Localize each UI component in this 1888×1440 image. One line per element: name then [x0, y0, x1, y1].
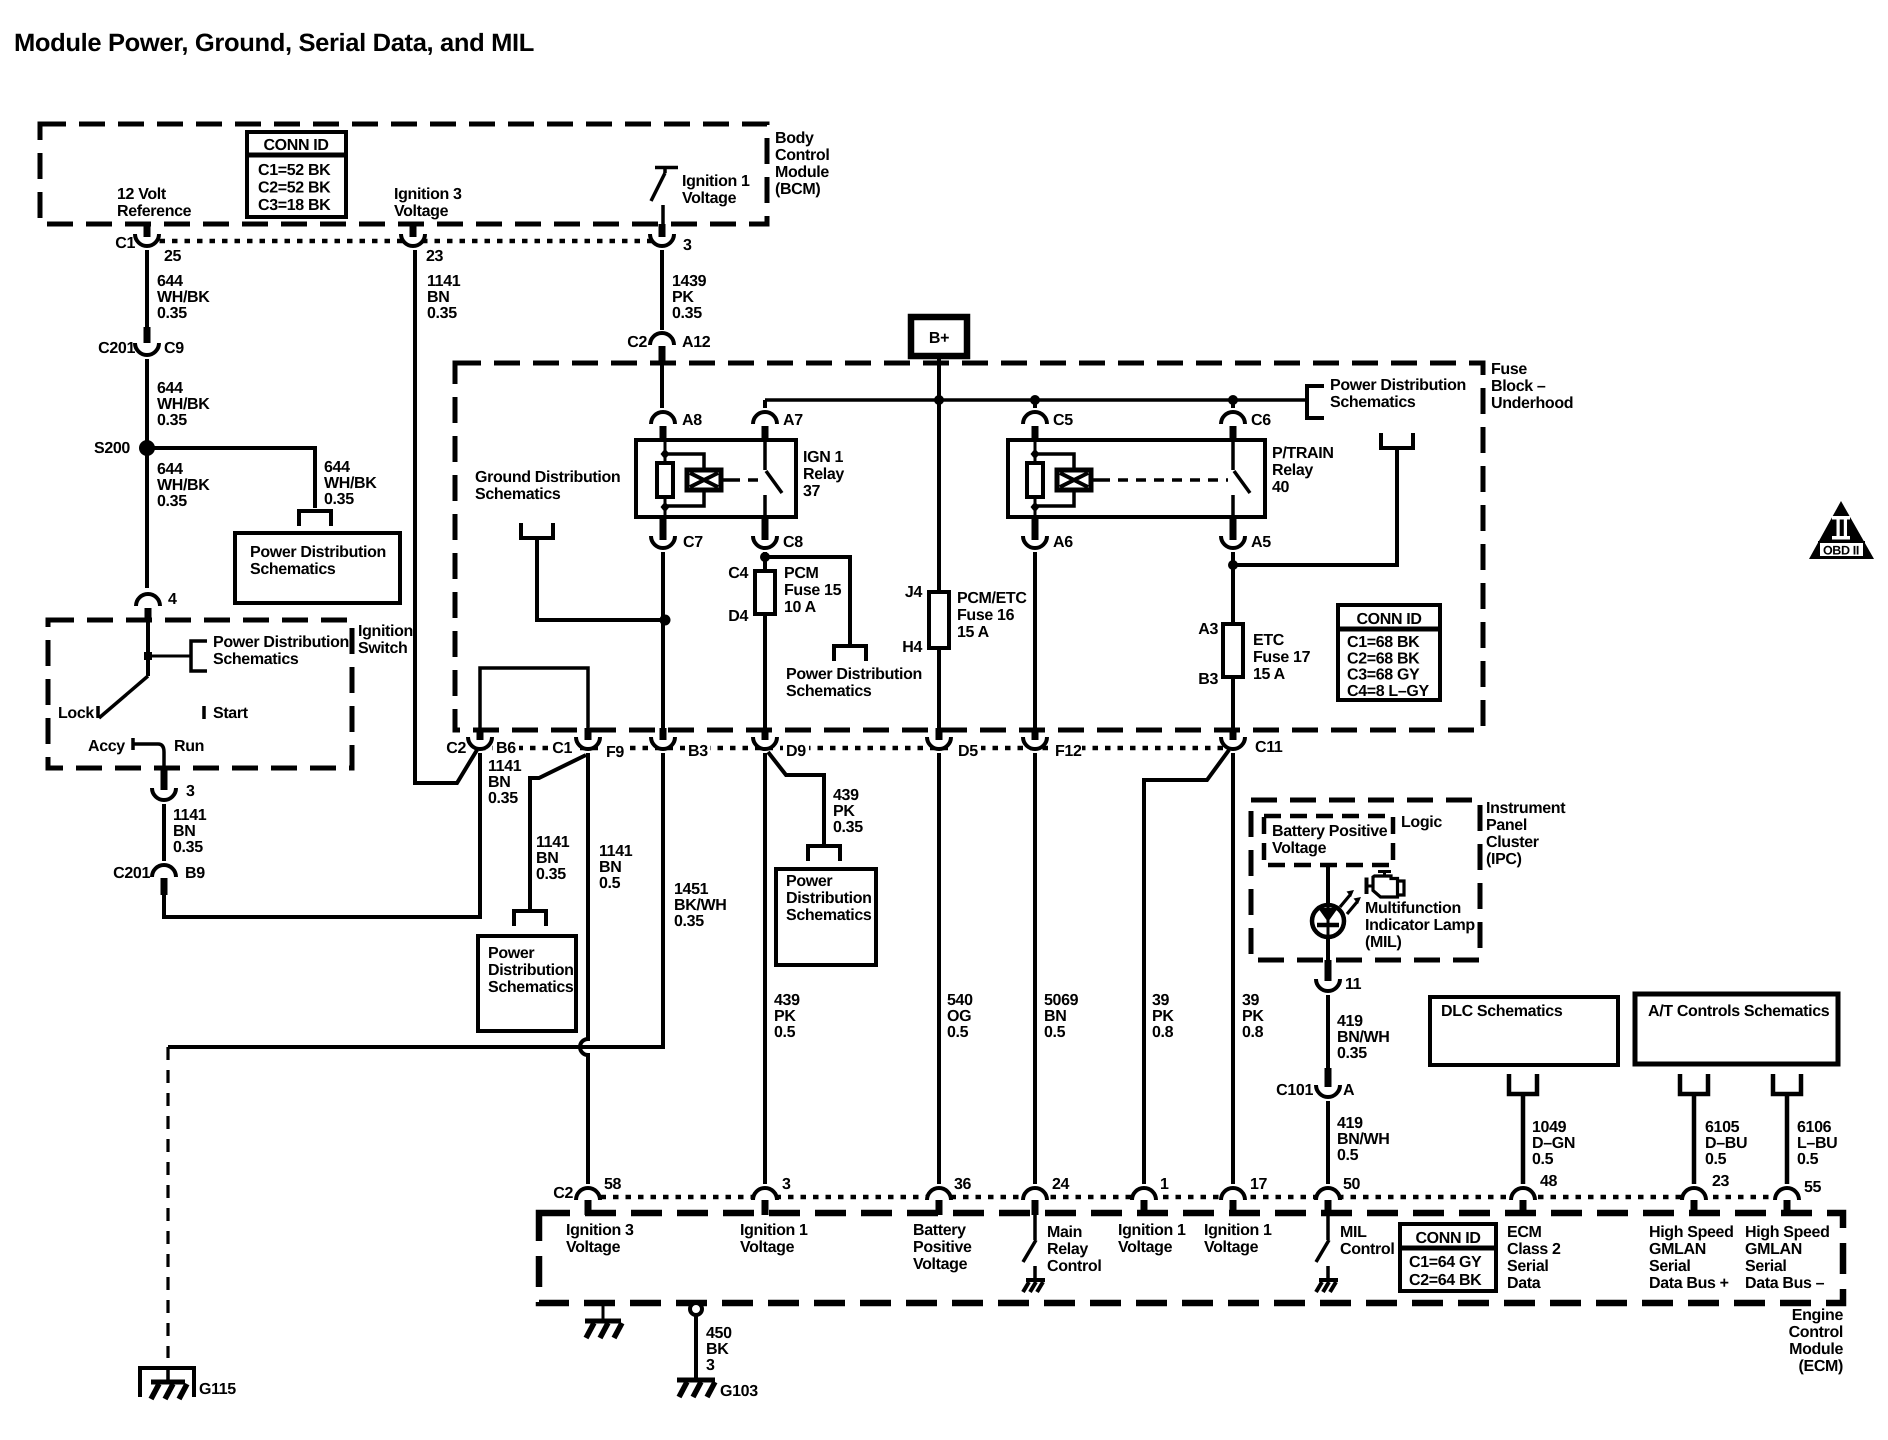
svg-text:0.5: 0.5 [599, 875, 621, 892]
svg-text:Voltage: Voltage [1118, 1239, 1173, 1256]
svg-text:G115: G115 [199, 1381, 236, 1398]
svg-text:OBD II: OBD II [1823, 544, 1859, 558]
svg-text:WH/BK: WH/BK [157, 477, 210, 494]
fuse block CONN ID table [1338, 605, 1440, 700]
svg-text:C4=8 L–GY: C4=8 L–GY [1347, 683, 1429, 700]
connector C5 (fuse block) [1023, 412, 1047, 424]
svg-text:Data Bus –: Data Bus – [1745, 1275, 1825, 1292]
connector C2 pin A12 [650, 333, 674, 345]
svg-text:Control: Control [1047, 1258, 1101, 1275]
switch Main Relay Control (ECM internal) [1033, 1215, 1037, 1240]
svg-text:P/TRAIN: P/TRAIN [1272, 445, 1334, 462]
svg-text:L–BU: L–BU [1797, 1135, 1837, 1152]
icon check engine [1378, 872, 1391, 877]
wire 644 WH/BK branch (S200 to Power Distribution) [147, 448, 315, 508]
svg-text:C101: C101 [1276, 1082, 1313, 1099]
junction C8 branch [760, 552, 770, 562]
svg-text:C2=68 BK: C2=68 BK [1347, 650, 1420, 667]
svg-text:Voltage: Voltage [682, 190, 737, 207]
svg-text:Control: Control [1340, 1241, 1394, 1258]
wire bus to C6 [1231, 400, 1235, 408]
connector C1 pin 25 (BCM) [135, 234, 159, 246]
svg-text:C2=64 BK: C2=64 BK [1409, 1272, 1482, 1289]
wire MIL lamp to pin 11 [1326, 937, 1330, 960]
svg-text:0.5: 0.5 [774, 1024, 796, 1041]
svg-text:55: 55 [1804, 1179, 1822, 1196]
svg-text:C8: C8 [783, 534, 803, 551]
svg-text:50: 50 [1343, 1176, 1361, 1193]
svg-text:1439: 1439 [672, 273, 707, 290]
off-page bracket (ignition switch PDS) [191, 641, 207, 671]
svg-text:644: 644 [324, 459, 350, 476]
lamp MIL LED [1312, 905, 1344, 937]
svg-text:1049: 1049 [1532, 1119, 1567, 1136]
svg-text:C4: C4 [728, 565, 748, 582]
connector pin 3 (ignition switch) [152, 788, 176, 800]
svg-text:PCM/ETC: PCM/ETC [957, 590, 1027, 607]
svg-text:Power: Power [488, 945, 534, 962]
svg-text:644: 644 [157, 461, 183, 478]
connector C101 pin A [1316, 1085, 1340, 1097]
svg-text:Relay: Relay [1272, 462, 1313, 479]
svg-text:3: 3 [706, 1357, 715, 1374]
svg-text:WH/BK: WH/BK [324, 475, 377, 492]
svg-text:PK: PK [1152, 1008, 1174, 1025]
switch blade (ignition switch) [99, 676, 148, 718]
svg-text:23: 23 [426, 248, 444, 265]
svg-text:Ignition 1: Ignition 1 [1204, 1222, 1272, 1239]
lamp MIL arrows [1340, 895, 1357, 914]
svg-text:419: 419 [1337, 1115, 1363, 1132]
svg-text:Fuse 17: Fuse 17 [1253, 649, 1311, 666]
svg-text:C201: C201 [113, 865, 150, 882]
svg-text:Engine: Engine [1792, 1307, 1844, 1324]
wire 419 BN/WH (11 to C101) [1326, 995, 1330, 1068]
svg-text:Ignition 3: Ignition 3 [394, 186, 462, 203]
wire B+ to PCM/ETC fuse [937, 400, 941, 592]
connector pin 48 (ECM) [1511, 1188, 1535, 1200]
svg-text:A6: A6 [1053, 534, 1073, 551]
connector C201 pin B9 [152, 865, 176, 877]
svg-text:Start: Start [213, 705, 249, 722]
off-page bracket (A5 branch) [1381, 433, 1413, 448]
svg-text:Power: Power [786, 873, 832, 890]
svg-text:Power Distribution: Power Distribution [250, 544, 386, 561]
svg-text:Relay: Relay [803, 466, 844, 483]
svg-text:C6: C6 [1251, 412, 1271, 429]
svg-text:Module: Module [1789, 1341, 1843, 1358]
svg-text:WH/BK: WH/BK [157, 289, 210, 306]
svg-text:C1=68 BK: C1=68 BK [1347, 634, 1420, 651]
svg-text:0.5: 0.5 [1044, 1024, 1066, 1041]
connector pin 11 (IPC) [1316, 979, 1340, 991]
svg-text:0.35: 0.35 [1337, 1045, 1367, 1062]
off-page bracket (DLC) [1509, 1074, 1537, 1094]
svg-text:CONN ID: CONN ID [263, 137, 328, 154]
svg-text:Data Bus +: Data Bus + [1649, 1275, 1729, 1292]
svg-text:Serial: Serial [1507, 1258, 1549, 1275]
svg-text:D–BU: D–BU [1705, 1135, 1747, 1152]
svg-text:BN: BN [1044, 1008, 1066, 1025]
svg-text:37: 37 [803, 483, 821, 500]
svg-text:B6: B6 [496, 740, 516, 757]
ground ECM case [602, 1303, 605, 1321]
svg-text:Ignition 1: Ignition 1 [682, 173, 750, 190]
connector pin 17 (ECM) [1221, 1188, 1245, 1200]
svg-text:Body: Body [775, 130, 814, 147]
svg-text:BN: BN [427, 289, 449, 306]
box Power Distribution Schematics (D9 branch) [776, 869, 876, 965]
wire B+ to bus [937, 356, 941, 400]
svg-text:A7: A7 [783, 412, 803, 429]
svg-text:S200: S200 [94, 440, 130, 457]
svg-text:1451: 1451 [674, 881, 709, 898]
svg-text:BK: BK [706, 1341, 729, 1358]
BCM CONN ID table [247, 132, 346, 217]
svg-text:Class 2: Class 2 [1507, 1241, 1561, 1258]
svg-text:Schematics: Schematics [250, 561, 336, 578]
svg-text:B+: B+ [929, 330, 949, 347]
svg-text:Ignition 1: Ignition 1 [1118, 1222, 1186, 1239]
icon OBD II [1809, 501, 1874, 559]
svg-text:(BCM): (BCM) [775, 181, 820, 198]
svg-text:0.5: 0.5 [947, 1024, 969, 1041]
svg-text:6105: 6105 [1705, 1119, 1740, 1136]
svg-text:BN: BN [173, 823, 195, 840]
svg-text:6106: 6106 [1797, 1119, 1832, 1136]
wire C8 branch to Power Distribution [765, 557, 850, 645]
connector C7 (fuse block) [651, 536, 675, 548]
svg-text:Relay: Relay [1047, 1241, 1088, 1258]
ground G115 [140, 1368, 194, 1397]
svg-text:G103: G103 [720, 1383, 758, 1400]
svg-text:0.8: 0.8 [1152, 1024, 1174, 1041]
connector C2 pin B6 (fuse block) [468, 737, 492, 749]
svg-text:A5: A5 [1251, 534, 1271, 551]
svg-text:36: 36 [954, 1176, 972, 1193]
svg-text:D9: D9 [786, 743, 806, 760]
svg-text:Run: Run [174, 738, 204, 755]
svg-text:PK: PK [672, 289, 694, 306]
svg-text:0.35: 0.35 [488, 790, 518, 807]
svg-text:1141: 1141 [488, 758, 522, 775]
wire 1439 PK (BCM 3 to C2-A12) [660, 250, 664, 330]
svg-text:Multifunction: Multifunction [1365, 900, 1461, 917]
svg-text:F12: F12 [1055, 743, 1082, 760]
wire 450 BK (ECM to G103) [694, 1315, 698, 1380]
wire D9 branch to PDS [768, 752, 824, 845]
svg-text:GMLAN: GMLAN [1649, 1241, 1706, 1258]
svg-text:PK: PK [774, 1008, 796, 1025]
connector pin 55 (ECM) [1775, 1188, 1799, 1200]
svg-text:C1=64 GY: C1=64 GY [1409, 1254, 1482, 1271]
svg-text:BN: BN [488, 774, 510, 791]
svg-text:PCM: PCM [784, 565, 819, 582]
svg-text:D4: D4 [728, 608, 748, 625]
svg-text:Battery Positive: Battery Positive [1272, 823, 1388, 840]
wire fuse block bus [765, 398, 1307, 402]
svg-text:High Speed: High Speed [1745, 1224, 1830, 1241]
junction A5 branch [1228, 560, 1238, 570]
svg-text:Voltage: Voltage [566, 1239, 621, 1256]
connector D5 (fuse block) [927, 737, 951, 749]
wire 1141 BN (B9 to fuse block B6) [164, 753, 480, 917]
svg-text:Distribution: Distribution [786, 890, 872, 907]
module ECM box [539, 1213, 1843, 1303]
svg-text:Ground Distribution: Ground Distribution [475, 469, 620, 486]
svg-text:BN/WH: BN/WH [1337, 1029, 1389, 1046]
svg-text:A8: A8 [682, 412, 702, 429]
svg-text:11: 11 [1345, 976, 1362, 993]
svg-text:Positive: Positive [913, 1239, 972, 1256]
connector C1 pin 3 (BCM) [650, 234, 674, 246]
svg-text:10 A: 10 A [784, 599, 817, 616]
relay P/TRAIN Relay 40 [1008, 440, 1265, 517]
svg-text:IGN 1: IGN 1 [803, 449, 843, 466]
switch Ignition 1 Voltage (BCM internal) [655, 166, 678, 170]
svg-text:17: 17 [1250, 1176, 1268, 1193]
svg-text:C11: C11 [1255, 739, 1283, 756]
fuse block bottom row label backs [444, 738, 1284, 759]
connector C8 (fuse block) [753, 536, 777, 548]
svg-text:Instrument: Instrument [1486, 800, 1566, 817]
svg-text:C9: C9 [164, 340, 184, 357]
wire bus to A7 [763, 400, 767, 408]
wire 6106 L-BU (A/T to ECM 55) [1785, 1094, 1790, 1184]
relay IGN 1 Relay 37 [636, 440, 796, 517]
connector F12 (fuse block) [1023, 737, 1047, 749]
svg-text:Logic: Logic [1401, 814, 1442, 831]
svg-text:Voltage: Voltage [740, 1239, 795, 1256]
svg-text:Data: Data [1507, 1275, 1541, 1292]
off-page bracket (S200 branch) [299, 511, 331, 526]
svg-text:0.35: 0.35 [427, 305, 457, 322]
node S200 junction [139, 440, 155, 456]
connector A6 (fuse block) [1023, 536, 1047, 548]
connector C11 (fuse block) [1221, 737, 1245, 749]
wire C11 branch to ECM 1 (39 PK) [1144, 750, 1229, 1184]
connector A7 (fuse block) [753, 412, 777, 424]
BCM connector dotted row [147, 239, 662, 244]
contact Lock [96, 706, 100, 718]
wire bus to C5 [1033, 400, 1037, 408]
svg-text:1141: 1141 [427, 273, 461, 290]
wire A5 branch to bracket [1233, 450, 1397, 565]
svg-text:MIL: MIL [1340, 1224, 1367, 1241]
off-page bracket (bus Power Distribution) [1307, 386, 1324, 418]
contact Start [202, 706, 206, 719]
svg-text:Fuse: Fuse [1491, 361, 1527, 378]
svg-text:Voltage: Voltage [1204, 1239, 1259, 1256]
svg-text:Serial: Serial [1745, 1258, 1787, 1275]
module Ignition Switch box [48, 620, 352, 768]
svg-text:39: 39 [1152, 992, 1170, 1009]
svg-text:Schematics: Schematics [213, 651, 299, 668]
svg-text:0.35: 0.35 [672, 305, 702, 322]
wire ETC fuse to C11 [1231, 677, 1235, 733]
connector C201 pin C9 [135, 343, 159, 355]
svg-text:644: 644 [157, 273, 183, 290]
connector C2 pin 58 (ECM) [576, 1188, 600, 1200]
svg-text:Distribution: Distribution [488, 962, 574, 979]
box A/T Controls Schematics [1635, 994, 1838, 1064]
svg-text:Block –: Block – [1491, 378, 1546, 395]
svg-text:0.35: 0.35 [157, 493, 187, 510]
svg-text:(MIL): (MIL) [1365, 934, 1401, 951]
svg-text:Underhood: Underhood [1491, 395, 1573, 412]
svg-text:Ignition 1: Ignition 1 [740, 1222, 808, 1239]
wire 1141 BN (ignition switch to C201-B9) [162, 804, 166, 861]
wire 644 WH/BK (C201 to S200 to ignition switch) [145, 359, 149, 588]
svg-text:ETC: ETC [1253, 632, 1285, 649]
box Power Distribution Schematics (left) [235, 533, 400, 603]
svg-text:(IPC): (IPC) [1486, 851, 1522, 868]
svg-text:PK: PK [833, 803, 855, 820]
svg-text:1141: 1141 [599, 843, 633, 860]
svg-text:C1=52 BK: C1=52 BK [258, 162, 331, 179]
svg-text:450: 450 [706, 1325, 732, 1342]
svg-text:Power Distribution: Power Distribution [786, 666, 922, 683]
svg-text:Accy: Accy [88, 738, 125, 755]
ground G103 [677, 1378, 715, 1383]
svg-text:B9: B9 [185, 865, 205, 882]
svg-text:0.35: 0.35 [157, 412, 187, 429]
junction B+ bus [934, 395, 944, 405]
svg-text:3: 3 [782, 1176, 791, 1193]
wire 644 WH/BK (C1-25 to C201) [145, 250, 149, 328]
module IPC box [1251, 800, 1480, 960]
svg-text:WH/BK: WH/BK [157, 396, 210, 413]
connector pin 1 (ECM) [1132, 1188, 1156, 1200]
svg-text:Voltage: Voltage [394, 203, 449, 220]
svg-text:Fuse 15: Fuse 15 [784, 582, 842, 599]
connector pin 3 (ECM) [753, 1188, 777, 1200]
wire B3 to G115 (1451 BK/WH) [168, 753, 663, 1047]
connector pin 23 (ECM) [1682, 1188, 1706, 1200]
svg-text:3: 3 [186, 783, 195, 800]
svg-text:419: 419 [1337, 1013, 1363, 1030]
svg-text:High Speed: High Speed [1649, 1224, 1734, 1241]
svg-text:C2=52 BK: C2=52 BK [258, 180, 331, 197]
svg-text:0.5: 0.5 [1797, 1151, 1819, 1168]
svg-text:H4: H4 [902, 639, 922, 656]
wire ignition switch feed [146, 621, 150, 676]
svg-text:0.35: 0.35 [833, 819, 863, 836]
svg-text:DLC Schematics: DLC Schematics [1441, 1003, 1563, 1020]
svg-text:Indicator Lamp: Indicator Lamp [1365, 917, 1475, 934]
svg-text:0.35: 0.35 [536, 866, 566, 883]
connector pin 4 (ignition switch) [136, 594, 160, 606]
svg-text:39: 39 [1242, 992, 1260, 1009]
connector C1 pin F9 (fuse block) [576, 737, 600, 749]
svg-text:F9: F9 [606, 744, 624, 761]
fuse block bottom dotted row [480, 746, 1233, 751]
svg-text:Voltage: Voltage [913, 1256, 968, 1273]
svg-text:540: 540 [947, 992, 973, 1009]
svg-text:1141: 1141 [173, 807, 207, 824]
svg-text:Lock: Lock [58, 705, 94, 722]
svg-text:Module: Module [775, 164, 829, 181]
wire D5 to ECM 36 (540 OG) [937, 753, 941, 1184]
svg-text:5069: 5069 [1044, 992, 1079, 1009]
svg-text:4: 4 [168, 591, 177, 608]
svg-text:A3: A3 [1198, 621, 1218, 638]
svg-text:A12: A12 [682, 334, 711, 351]
svg-text:D–GN: D–GN [1532, 1135, 1575, 1152]
svg-text:OG: OG [947, 1008, 971, 1025]
wire 6105 D-BU (A/T to ECM 23) [1692, 1094, 1697, 1184]
junction C5 bus [1030, 395, 1040, 405]
svg-text:Serial: Serial [1649, 1258, 1691, 1275]
svg-text:12 Volt: 12 Volt [117, 186, 167, 203]
wire F9 to ECM 58 (1141 BN) [580, 753, 588, 1184]
svg-text:Power Distribution: Power Distribution [1330, 377, 1466, 394]
svg-text:BN/WH: BN/WH [1337, 1131, 1389, 1148]
wire A6 to F12 [1033, 552, 1037, 733]
svg-text:644: 644 [157, 380, 183, 397]
svg-text:23: 23 [1712, 1173, 1730, 1190]
svg-text:15 A: 15 A [1253, 666, 1286, 683]
svg-text:J4: J4 [905, 584, 923, 601]
svg-text:C2: C2 [446, 740, 466, 757]
svg-text:0.5: 0.5 [1705, 1151, 1727, 1168]
svg-text:CONN ID: CONN ID [1356, 611, 1421, 628]
node B+ battery feed [911, 317, 967, 356]
module Fuse Block box [455, 363, 1483, 730]
wire PCM fuse to D9 [763, 614, 767, 733]
svg-text:Ignition: Ignition [358, 623, 413, 640]
svg-text:1141: 1141 [536, 834, 570, 851]
fuse block internal jumper B6 to F9 [480, 668, 588, 729]
wire 419 BN/WH (C101 to ECM 50) [1326, 1101, 1330, 1184]
wire G115 dashed segment [166, 1047, 169, 1358]
connector A8 (fuse block) [651, 412, 675, 424]
wire battery positive to MIL lamp [1326, 865, 1330, 905]
wire C8 to PCM fuse [763, 552, 767, 571]
svg-text:Battery: Battery [913, 1222, 966, 1239]
svg-text:Schematics: Schematics [786, 907, 872, 924]
svg-text:Schematics: Schematics [786, 683, 872, 700]
svg-text:0.5: 0.5 [1532, 1151, 1554, 1168]
svg-text:Cluster: Cluster [1486, 834, 1539, 851]
svg-text:Schematics: Schematics [1330, 394, 1416, 411]
off-page bracket (A/T left) [1680, 1074, 1708, 1094]
svg-text:15 A: 15 A [957, 624, 990, 641]
wire D9 to ECM 3 (439 PK) [763, 753, 767, 1184]
connector pin 36 (ECM) [927, 1188, 951, 1200]
wire PCM/ETC fuse to D5 [937, 648, 941, 733]
svg-text:Module Power, Ground, Serial D: Module Power, Ground, Serial Data, and M… [14, 29, 534, 57]
svg-text:Voltage: Voltage [1272, 840, 1327, 857]
off-page bracket (ground distribution) [521, 523, 553, 538]
svg-text:Control: Control [1789, 1324, 1843, 1341]
svg-text:C1: C1 [552, 740, 572, 757]
svg-text:40: 40 [1272, 479, 1290, 496]
svg-text:Schematics: Schematics [475, 486, 561, 503]
off-page bracket (A/T right) [1773, 1074, 1801, 1094]
fuse PCM Fuse 15 10A [755, 571, 775, 614]
svg-text:D5: D5 [958, 743, 978, 760]
svg-text:CONN ID: CONN ID [1415, 1230, 1480, 1247]
wire ground distribution to C7 net [537, 540, 665, 620]
svg-text:A/T Controls Schematics: A/T Controls Schematics [1648, 1003, 1830, 1020]
svg-text:Switch: Switch [358, 640, 407, 657]
svg-text:BN: BN [599, 859, 621, 876]
connector B3 (fuse block) [651, 737, 675, 749]
svg-text:C201: C201 [98, 340, 135, 357]
connector C6 (fuse block) [1221, 412, 1245, 424]
svg-text:0.35: 0.35 [674, 913, 704, 930]
